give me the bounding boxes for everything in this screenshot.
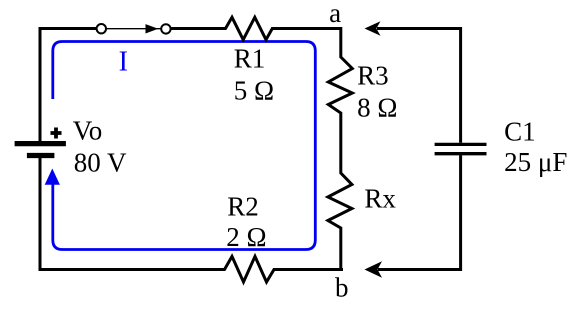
svg-text:Vo: Vo	[73, 116, 103, 146]
svg-text:Rx: Rx	[364, 184, 396, 214]
svg-text:5 Ω: 5 Ω	[234, 75, 274, 105]
svg-text:I: I	[119, 47, 128, 78]
svg-text:80 V: 80 V	[74, 147, 127, 177]
svg-text:8 Ω: 8 Ω	[357, 92, 397, 122]
svg-text:C1: C1	[504, 117, 536, 147]
svg-text:b: b	[335, 272, 349, 302]
svg-text:a: a	[329, 0, 341, 28]
svg-text:R1: R1	[234, 44, 266, 74]
svg-text:2 Ω: 2 Ω	[226, 222, 266, 252]
svg-text:R2: R2	[227, 192, 259, 222]
svg-text:R3: R3	[357, 61, 389, 91]
svg-text:25 μF: 25 μF	[504, 147, 567, 177]
